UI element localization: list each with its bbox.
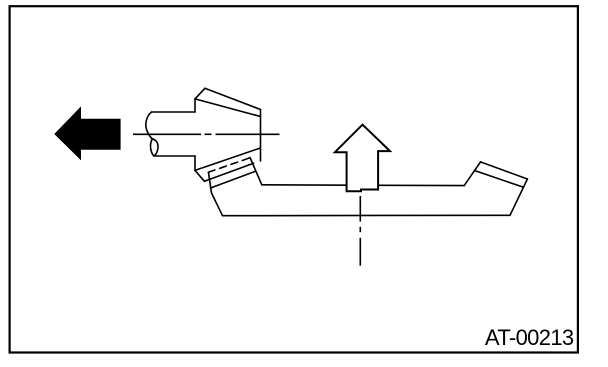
pinion shaft (146, 112, 195, 156)
black left arrow (54, 106, 120, 160)
tray / carrier (209, 158, 528, 216)
horizontal center line (dash-dot) of pinion axis (133, 133, 280, 135)
pinion cone head (195, 88, 261, 188)
up arrow (white filled) (335, 125, 390, 192)
vertical center line (dash-dot) below tray (359, 196, 361, 266)
svg-text:AT-00213: AT-00213 (485, 325, 574, 350)
